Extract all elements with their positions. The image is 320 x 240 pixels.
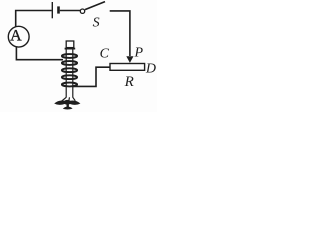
svg-text:D: D xyxy=(145,62,156,77)
svg-text:P: P xyxy=(134,45,144,60)
svg-text:S: S xyxy=(93,15,100,30)
svg-text:R: R xyxy=(124,74,134,90)
svg-text:A: A xyxy=(10,27,22,44)
svg-text:C: C xyxy=(100,46,110,61)
